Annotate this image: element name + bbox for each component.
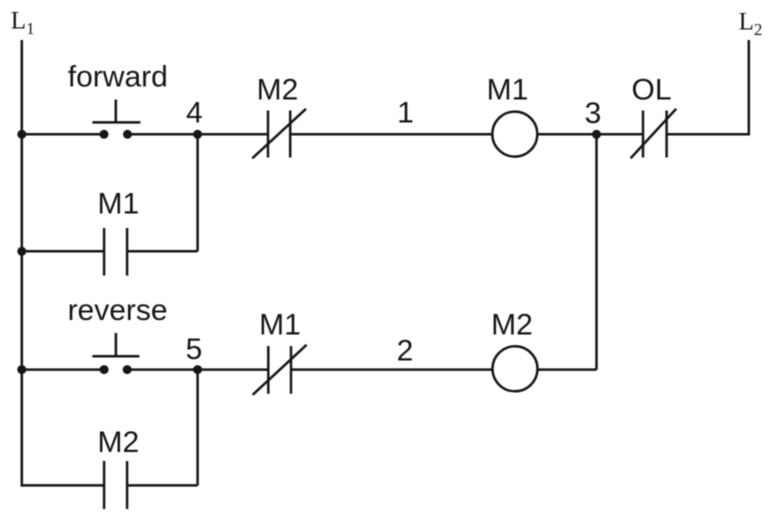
svg-text:OL: OL	[631, 74, 671, 107]
svg-text:M1: M1	[487, 74, 529, 107]
svg-text:4: 4	[186, 97, 203, 130]
svg-text:M1: M1	[98, 188, 140, 221]
svg-text:3: 3	[585, 97, 602, 130]
svg-text:1: 1	[397, 97, 414, 130]
svg-text:5: 5	[186, 333, 203, 366]
svg-text:M2: M2	[257, 73, 299, 106]
svg-text:reverse: reverse	[68, 294, 168, 327]
svg-text:forward: forward	[68, 61, 168, 94]
svg-text:M2: M2	[491, 308, 533, 341]
svg-text:M2: M2	[98, 426, 140, 459]
svg-text:2: 2	[397, 335, 414, 368]
svg-text:M1: M1	[259, 308, 301, 341]
